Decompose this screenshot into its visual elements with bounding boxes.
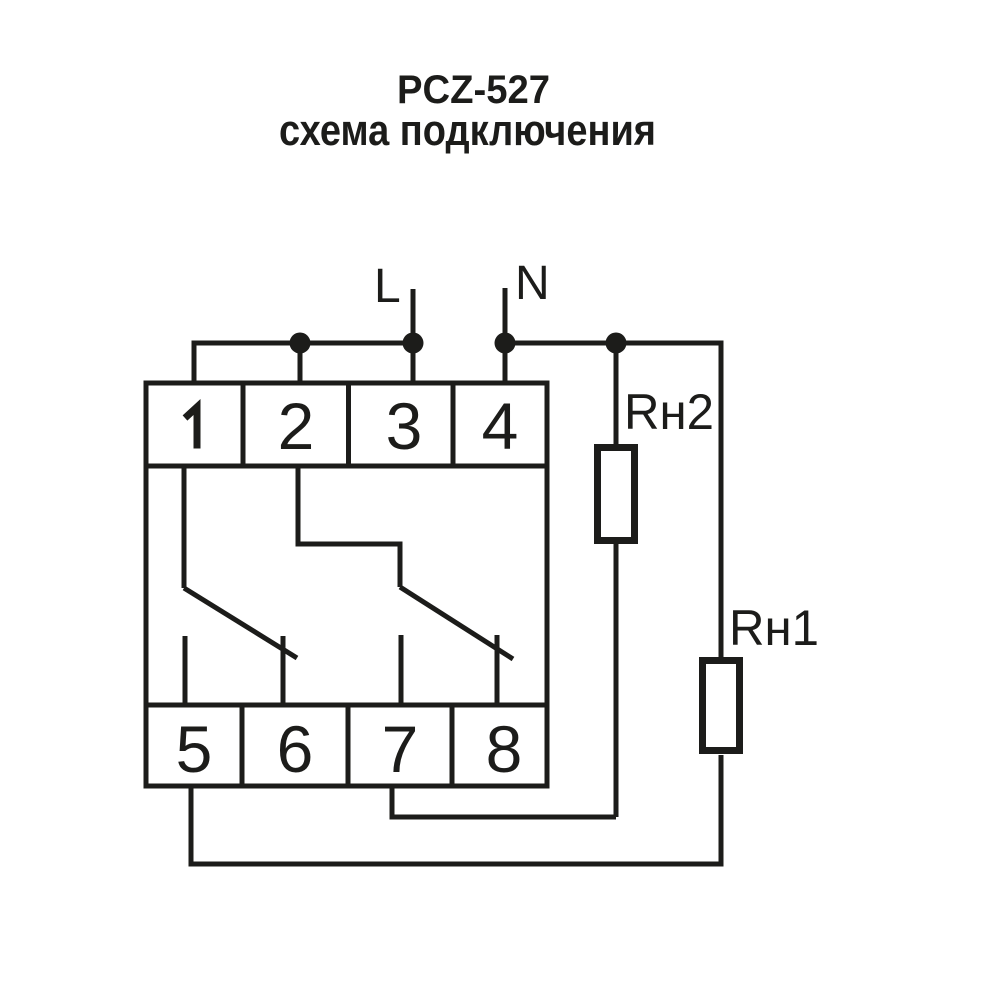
terminal strip line lower	[146, 703, 547, 708]
resistor Rн1	[703, 661, 740, 751]
wire Rн1 top lead	[719, 343, 722, 657]
wire L input	[411, 289, 416, 343]
wire N input	[503, 288, 508, 343]
svg-text:L: L	[374, 260, 401, 313]
resistor Rн2	[598, 448, 635, 541]
svg-text:Rн2: Rн2	[624, 384, 714, 440]
wire Rн1 to terminal 5	[191, 862, 724, 867]
junction dot L	[403, 333, 424, 354]
wire terminal 4 riser	[503, 343, 508, 383]
junction dot Rн2 branch	[606, 333, 627, 354]
svg-text:Rн1: Rн1	[729, 600, 819, 656]
svg-text:2: 2	[278, 389, 315, 463]
svg-text:N: N	[515, 257, 550, 310]
contact 1 switch arm	[184, 588, 297, 658]
wire L bus	[194, 341, 414, 346]
contact 1 stub terminal 5	[183, 636, 188, 705]
wire terminal 1 riser	[192, 341, 197, 384]
junction dot N	[495, 333, 516, 354]
wire terminal 3 riser	[411, 343, 416, 383]
terminal divider 6|7	[346, 705, 351, 786]
wire Rн2 top lead	[614, 343, 619, 444]
contact 2 stub terminal 7	[399, 635, 404, 705]
contact 2 stub terminal 8	[495, 635, 500, 705]
junction dot terminal 2	[290, 333, 311, 354]
svg-text:8: 8	[486, 712, 523, 786]
terminal 1 label	[185, 407, 197, 449]
svg-text:схема подключения: схема подключения	[279, 106, 656, 155]
wire Rн2 to terminal 7	[392, 815, 616, 820]
contact 1 common wire	[182, 466, 187, 588]
device outline	[146, 383, 547, 786]
svg-text:4: 4	[482, 389, 519, 463]
wire terminal 2 riser	[298, 343, 303, 383]
contact 2 common wire	[298, 466, 400, 587]
svg-text:5: 5	[176, 712, 213, 786]
svg-text:6: 6	[277, 712, 314, 786]
terminal divider 3|4	[451, 383, 456, 466]
terminal divider 2|3	[346, 383, 351, 466]
terminal divider 5|6	[240, 705, 245, 786]
contact 2 switch arm	[400, 587, 513, 659]
wire terminal 5 drop	[189, 786, 194, 867]
wire Rн2 bottom lead	[614, 544, 619, 817]
terminal divider 1|2	[241, 383, 246, 466]
wire terminal 7 drop	[390, 786, 395, 820]
terminal divider 7|8	[450, 705, 455, 786]
wire Rн1 bottom lead	[719, 755, 724, 864]
contact 1 stub terminal 6	[281, 636, 286, 705]
svg-text:7: 7	[382, 712, 419, 786]
svg-text:3: 3	[386, 389, 423, 463]
terminal strip line upper	[146, 464, 547, 469]
wire N bus	[505, 341, 721, 346]
